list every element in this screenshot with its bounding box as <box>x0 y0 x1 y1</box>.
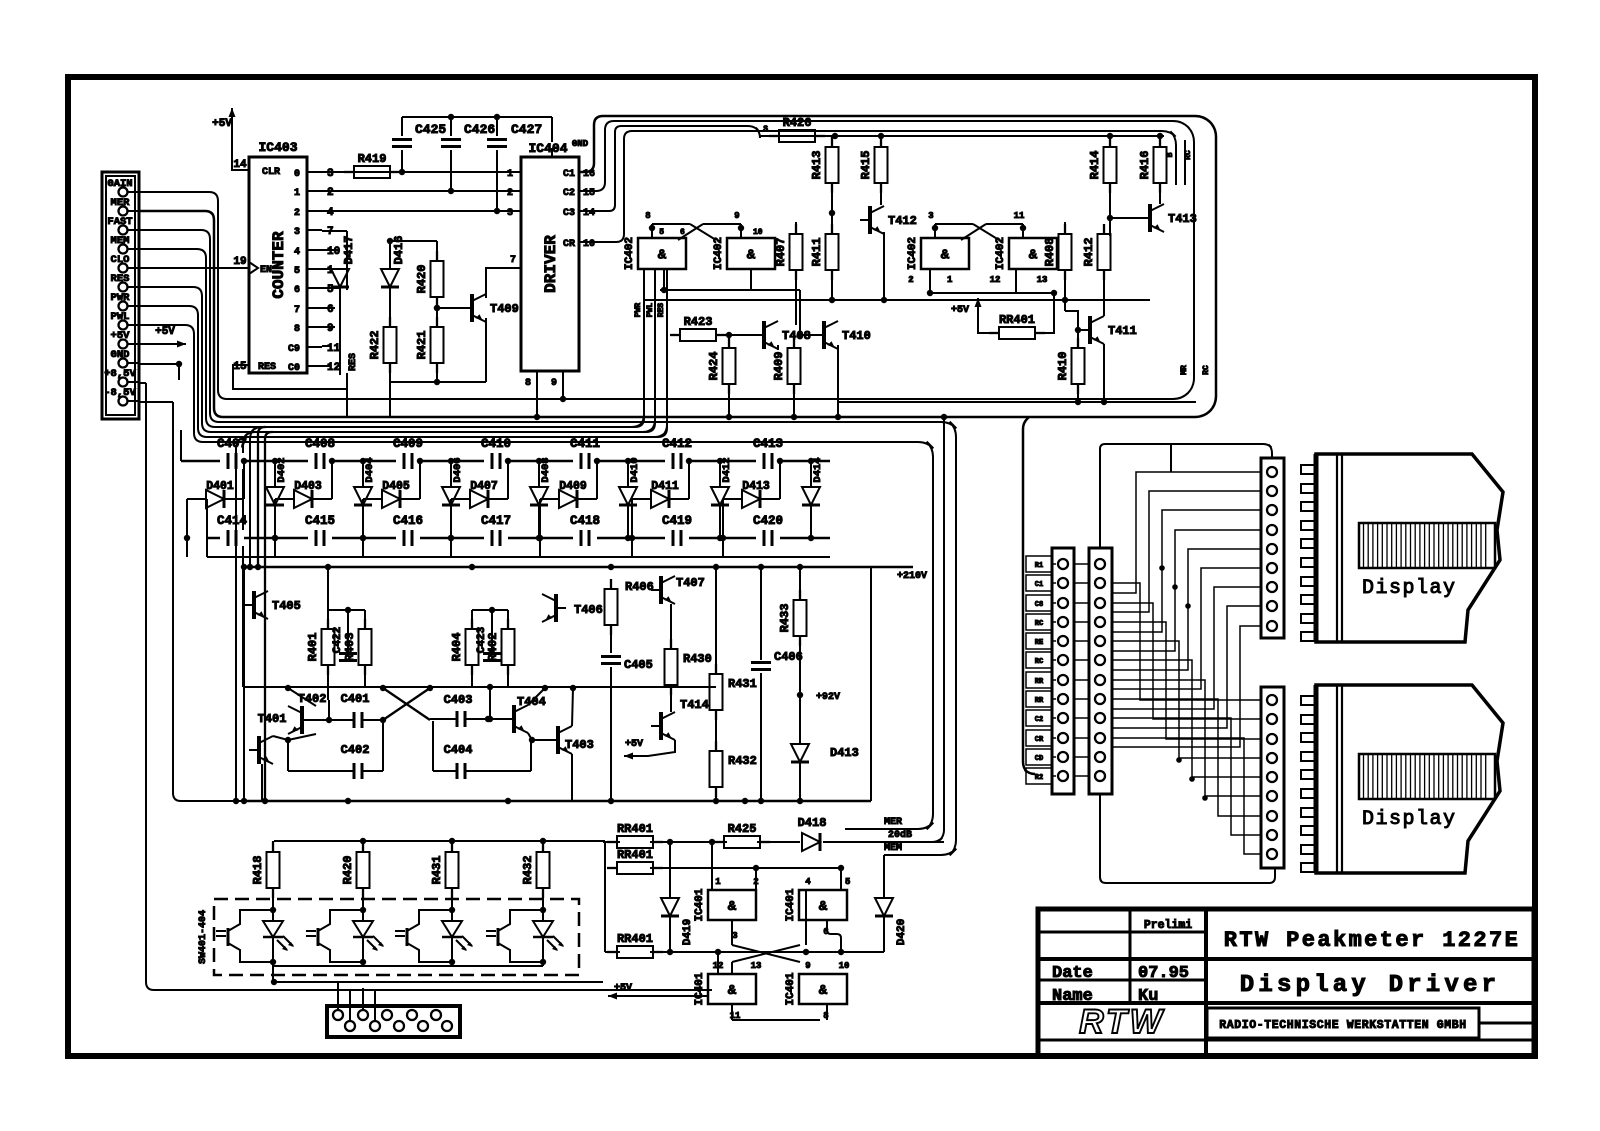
svg-text:C9: C9 <box>288 344 300 355</box>
svg-text:3: 3 <box>294 227 300 238</box>
svg-text:Prelimi: Prelimi <box>1144 919 1192 932</box>
svg-text:+5V: +5V <box>212 118 232 130</box>
svg-text:C408: C408 <box>305 437 335 451</box>
svg-text:C412: C412 <box>662 437 692 451</box>
svg-text:+5V: +5V <box>625 739 643 750</box>
svg-text:R421: R421 <box>415 331 429 360</box>
svg-text:3: 3 <box>732 931 737 941</box>
svg-text:R410: R410 <box>1056 352 1070 381</box>
svg-text:IC402: IC402 <box>907 237 919 270</box>
svg-text:DRIVER: DRIVER <box>542 235 560 293</box>
svg-text:&: & <box>1029 248 1038 264</box>
svg-text:CLR: CLR <box>262 167 280 178</box>
svg-text:3: 3 <box>327 168 334 180</box>
svg-text:07.95: 07.95 <box>1138 964 1189 983</box>
svg-text:11: 11 <box>1014 211 1025 221</box>
svg-text:C0: C0 <box>288 363 300 374</box>
svg-text:T411: T411 <box>1108 324 1137 338</box>
svg-text:C423: C423 <box>476 626 488 653</box>
svg-text:2: 2 <box>908 275 913 285</box>
svg-text:D413: D413 <box>830 746 859 760</box>
svg-text:RES: RES <box>348 353 359 371</box>
svg-text:R432: R432 <box>521 856 535 885</box>
svg-text:&: & <box>747 248 756 264</box>
svg-text:RR401: RR401 <box>617 848 653 862</box>
svg-text:C405: C405 <box>624 658 653 672</box>
svg-text:10: 10 <box>583 239 595 250</box>
svg-text:1: 1 <box>507 169 513 180</box>
svg-text:6: 6 <box>294 285 300 296</box>
svg-text:D401: D401 <box>206 480 234 493</box>
svg-text:2: 2 <box>327 187 334 199</box>
svg-text:4: 4 <box>294 247 300 258</box>
svg-text:C3: C3 <box>563 208 575 219</box>
svg-text:Display Driver: Display Driver <box>1240 972 1500 999</box>
svg-text:MEM: MEM <box>884 843 902 854</box>
svg-text:1: 1 <box>715 877 721 887</box>
svg-text:Date: Date <box>1052 964 1093 983</box>
svg-text:20dB: 20dB <box>888 829 912 841</box>
svg-text:15: 15 <box>233 361 247 373</box>
svg-text:T410: T410 <box>842 329 871 343</box>
svg-text:T413: T413 <box>1168 212 1197 226</box>
svg-text:7: 7 <box>294 305 300 316</box>
svg-text:&: & <box>728 983 737 999</box>
svg-text:7: 7 <box>510 255 516 266</box>
svg-text:C402: C402 <box>341 743 370 757</box>
svg-text:R416: R416 <box>1138 151 1152 180</box>
svg-text:C410: C410 <box>481 437 511 451</box>
svg-text:IC404: IC404 <box>528 141 567 156</box>
svg-text:Display: Display <box>1362 577 1457 600</box>
svg-text:IC401: IC401 <box>785 888 797 921</box>
svg-text:D416: D416 <box>392 236 406 265</box>
svg-text:R420: R420 <box>341 856 355 885</box>
svg-text:&: & <box>819 899 828 915</box>
svg-text:D407: D407 <box>470 480 498 493</box>
svg-text:9: 9 <box>327 323 334 335</box>
svg-text:14: 14 <box>583 208 595 219</box>
svg-text:+92V: +92V <box>816 692 840 703</box>
svg-text:19: 19 <box>233 256 246 268</box>
svg-text:R408: R408 <box>1043 238 1057 267</box>
svg-text:D417: D417 <box>342 236 356 265</box>
svg-text:R415: R415 <box>859 151 873 180</box>
svg-text:13: 13 <box>1037 275 1048 285</box>
svg-text:9: 9 <box>734 211 739 221</box>
svg-text:RR401: RR401 <box>999 313 1035 327</box>
svg-text:R431: R431 <box>430 856 444 885</box>
svg-text:EN: EN <box>260 265 272 276</box>
svg-text:3: 3 <box>507 208 513 219</box>
svg-text:12: 12 <box>327 362 340 374</box>
svg-text:C404: C404 <box>444 743 473 757</box>
svg-text:+5V: +5V <box>614 983 632 994</box>
svg-text:RC: RC <box>1184 150 1193 160</box>
svg-text:T414: T414 <box>680 698 709 712</box>
svg-text:RC: RC <box>1035 620 1043 628</box>
svg-text:CD: CD <box>1035 755 1043 763</box>
svg-text:R404: R404 <box>450 633 464 662</box>
svg-text:D418: D418 <box>798 816 827 830</box>
svg-text:8: 8 <box>525 378 531 389</box>
svg-text:R1: R1 <box>1035 562 1043 570</box>
svg-text:R411: R411 <box>810 238 824 267</box>
svg-text:R409: R409 <box>772 352 786 381</box>
svg-text:R424: R424 <box>707 352 721 381</box>
svg-text:C2: C2 <box>1035 716 1043 724</box>
svg-text:1: 1 <box>947 275 953 285</box>
svg-text:RR401: RR401 <box>617 932 653 946</box>
svg-text:&: & <box>658 248 667 264</box>
svg-text:R419: R419 <box>358 152 387 166</box>
svg-text:4: 4 <box>327 207 334 219</box>
svg-text:C1: C1 <box>1035 581 1043 589</box>
svg-text:11: 11 <box>327 343 341 355</box>
svg-text:9: 9 <box>551 378 557 389</box>
svg-text:RR: RR <box>1035 697 1044 705</box>
svg-text:3: 3 <box>928 211 933 221</box>
svg-text:RADIO-TECHNISCHE WERKSTATTEN G: RADIO-TECHNISCHE WERKSTATTEN GMBH <box>1219 1019 1467 1032</box>
svg-text:R412: R412 <box>1082 238 1096 267</box>
svg-text:RTW Peakmeter 1227E: RTW Peakmeter 1227E <box>1224 928 1520 953</box>
svg-text:+5V: +5V <box>155 326 175 338</box>
svg-text:C413: C413 <box>753 437 783 451</box>
svg-text:T406: T406 <box>574 603 603 617</box>
svg-text:&: & <box>941 248 950 264</box>
svg-text:D413: D413 <box>742 480 770 493</box>
svg-text:C8: C8 <box>1035 601 1043 609</box>
svg-text:4: 4 <box>805 877 811 887</box>
svg-text:C414: C414 <box>217 514 248 528</box>
svg-text:R401: R401 <box>306 633 320 662</box>
svg-text:T401: T401 <box>258 712 287 726</box>
svg-text:D420: D420 <box>896 919 908 945</box>
svg-text:C417: C417 <box>481 514 511 528</box>
svg-text:C1: C1 <box>563 169 575 180</box>
svg-text:C403: C403 <box>444 693 473 707</box>
svg-text:R433: R433 <box>778 604 792 633</box>
svg-text:IC401: IC401 <box>785 972 797 1005</box>
svg-text:C422: C422 <box>332 627 344 653</box>
svg-text:CR: CR <box>563 239 575 250</box>
svg-text:C2: C2 <box>563 188 575 199</box>
svg-text:T405: T405 <box>272 599 301 613</box>
svg-text:PWL: PWL <box>646 303 655 318</box>
svg-text:C407: C407 <box>217 437 247 451</box>
svg-text:MR: MR <box>1180 365 1189 375</box>
svg-text:R406: R406 <box>625 580 654 594</box>
svg-text:IC402: IC402 <box>995 237 1007 270</box>
svg-text:T403: T403 <box>565 738 594 752</box>
svg-text:2: 2 <box>507 188 513 199</box>
svg-text:IC401: IC401 <box>694 972 706 1005</box>
svg-text:RES: RES <box>258 362 276 373</box>
svg-text:C411: C411 <box>570 437 600 451</box>
svg-text:T409: T409 <box>490 302 519 316</box>
svg-text:C406: C406 <box>774 650 803 664</box>
svg-text:10: 10 <box>327 246 340 258</box>
svg-text:IC402: IC402 <box>713 237 725 270</box>
svg-text:15: 15 <box>583 188 595 199</box>
svg-text:RC: RC <box>1202 365 1211 375</box>
svg-text:RC: RC <box>1035 658 1043 666</box>
svg-text:C401: C401 <box>341 692 370 706</box>
svg-text:C427: C427 <box>511 122 542 137</box>
svg-text:&: & <box>819 983 828 999</box>
svg-text:+5V: +5V <box>951 305 969 316</box>
svg-text:0: 0 <box>294 169 300 180</box>
svg-text:14: 14 <box>233 159 247 171</box>
svg-text:D419: D419 <box>682 919 694 945</box>
svg-text:5: 5 <box>659 228 664 237</box>
svg-text:RES: RES <box>657 303 666 318</box>
svg-text:C415: C415 <box>305 514 335 528</box>
svg-text:8: 8 <box>645 211 650 221</box>
svg-text:10: 10 <box>839 961 850 971</box>
svg-text:RR401: RR401 <box>617 822 653 836</box>
svg-text:D405: D405 <box>382 480 410 493</box>
svg-text:T412: T412 <box>888 214 917 228</box>
svg-text:5: 5 <box>294 266 300 277</box>
svg-text:T407: T407 <box>676 576 705 590</box>
svg-text:C418: C418 <box>570 514 600 528</box>
svg-text:8: 8 <box>294 324 300 335</box>
svg-text:C419: C419 <box>662 514 692 528</box>
svg-text:R403: R403 <box>343 633 357 662</box>
svg-text:R432: R432 <box>728 754 757 768</box>
svg-text:C420: C420 <box>753 514 783 528</box>
svg-text:R430: R430 <box>683 652 712 666</box>
svg-text:IC401: IC401 <box>694 888 706 921</box>
svg-text:12: 12 <box>990 275 1001 285</box>
svg-text:R418: R418 <box>251 856 265 885</box>
svg-text:2: 2 <box>294 208 300 219</box>
svg-text:D411: D411 <box>651 480 679 493</box>
svg-text:RR: RR <box>1035 678 1044 686</box>
svg-text:GND: GND <box>572 139 589 149</box>
svg-text:IC402: IC402 <box>624 237 636 270</box>
svg-text:IC403: IC403 <box>258 140 297 155</box>
svg-text:6: 6 <box>680 228 685 237</box>
svg-text:13: 13 <box>751 961 762 971</box>
svg-text:PWR: PWR <box>634 303 643 318</box>
svg-text:COUNTER: COUNTER <box>270 231 288 299</box>
svg-text:5: 5 <box>845 877 850 887</box>
svg-text:9: 9 <box>805 961 810 971</box>
svg-text:R423: R423 <box>684 315 713 329</box>
svg-text:R431: R431 <box>728 677 757 691</box>
svg-text:C425: C425 <box>415 122 446 137</box>
svg-text:R425: R425 <box>728 822 757 836</box>
svg-text:1: 1 <box>294 188 300 199</box>
svg-text:RTW: RTW <box>1079 1003 1165 1041</box>
svg-text:C426: C426 <box>464 122 495 137</box>
svg-text:S: S <box>763 125 768 134</box>
svg-text:C409: C409 <box>393 437 423 451</box>
svg-text:RE: RE <box>1035 639 1043 647</box>
svg-text:R422: R422 <box>368 331 382 360</box>
svg-text:6: 6 <box>327 304 334 316</box>
svg-text:R413: R413 <box>810 151 824 180</box>
svg-text:R426: R426 <box>783 116 812 130</box>
svg-text:R414: R414 <box>1088 151 1102 180</box>
svg-text:10: 10 <box>753 228 763 237</box>
svg-text:R2: R2 <box>1035 774 1043 782</box>
svg-text:Display: Display <box>1362 808 1457 831</box>
svg-text:SW401-404: SW401-404 <box>198 910 209 964</box>
svg-text:D403: D403 <box>294 480 322 493</box>
svg-text:R420: R420 <box>415 265 429 294</box>
svg-text:D409: D409 <box>559 480 587 493</box>
svg-text:CR: CR <box>1035 736 1044 744</box>
svg-text:R407: R407 <box>774 238 788 267</box>
svg-text:&: & <box>728 899 737 915</box>
svg-text:+210V: +210V <box>897 571 927 582</box>
svg-text:C416: C416 <box>393 514 423 528</box>
svg-text:MER: MER <box>884 817 902 828</box>
